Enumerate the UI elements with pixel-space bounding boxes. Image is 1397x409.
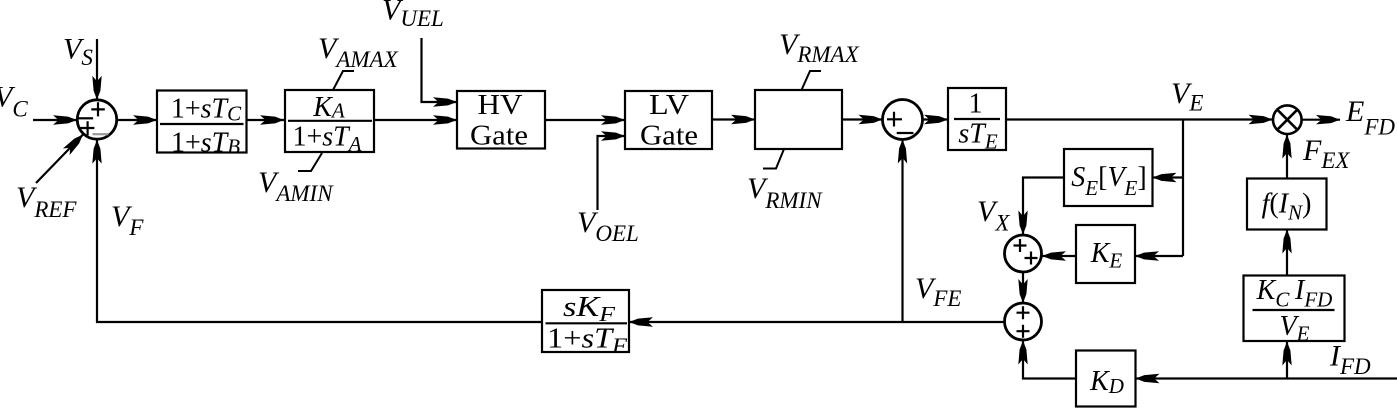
S3 plus sign (top) — [1017, 306, 1030, 319]
wire branch to KE block — [1135, 255, 1183, 257]
wire V_FE output (S3 to sKF block) — [629, 321, 1005, 323]
S3 plus sign (bottom) — [1017, 325, 1030, 338]
label V_AMIN — [258, 166, 334, 206]
label V_C — [0, 81, 28, 122]
wire f(IN) to multiplier — [1286, 135, 1288, 179]
svg-text:VOEL: VOEL — [577, 206, 639, 246]
wire HV gate to LV gate — [545, 119, 625, 121]
svg-text:EFD: EFD — [1345, 95, 1395, 140]
wire SE output to SX junction — [1023, 178, 1064, 235]
label V_F — [111, 200, 144, 240]
block G3 transfer function 1/(sTE) — [948, 88, 1006, 154]
wire V_E branch down — [1182, 120, 1184, 257]
label V_RMIN — [747, 172, 823, 213]
S1 minus sign (V_C) — [78, 117, 93, 119]
label I_FD — [1329, 340, 1371, 380]
block KE — [1076, 225, 1135, 283]
wire limiter to S2 — [842, 118, 883, 120]
block G1 transfer function (1+sTC)/(1+sTB) — [157, 91, 247, 159]
SX plus sign (right) — [1025, 252, 1038, 265]
block GF transfer function sKF/(1+sTF) — [542, 290, 629, 358]
svg-text:VAMIN: VAMIN — [258, 166, 334, 206]
block LV gate — [625, 90, 712, 152]
svg-text:KA: KA — [312, 92, 345, 123]
wire V_OEL input — [598, 136, 626, 210]
block FN rectifier f(IN) — [1247, 179, 1327, 230]
S1 minus sign (V_F) — [93, 133, 109, 135]
wire KE to SX — [1042, 255, 1076, 257]
svg-text:1+sTC: 1+sTC — [171, 94, 242, 126]
svg-text:VF: VF — [111, 200, 144, 240]
wire V_S input — [96, 39, 98, 100]
svg-text:SE[VE]: SE[VE] — [1071, 162, 1146, 200]
svg-text:VE: VE — [1280, 311, 1310, 346]
wire V_F feedback (from sKF block output up into S1) — [97, 140, 542, 322]
svg-text:KC IFD: KC IFD — [1256, 275, 1333, 312]
svg-text:1+sTA: 1+sTA — [292, 122, 361, 157]
S1 plus sign (V_S) — [91, 102, 105, 116]
svg-text:Gate: Gate — [470, 121, 528, 152]
summing junction SX — [1005, 235, 1042, 272]
label F_EX — [1302, 134, 1350, 173]
summing junction S2 — [883, 100, 923, 140]
svg-text:VUEL: VUEL — [382, 0, 444, 31]
wire KC to f(IN) block — [1286, 230, 1288, 277]
label V_RMAX — [779, 28, 860, 67]
label E_FD — [1345, 95, 1395, 140]
summing junction S1 — [77, 100, 116, 139]
svg-text:VC: VC — [0, 81, 28, 122]
svg-text:KD: KD — [1089, 366, 1124, 398]
S1 plus sign (V_REF) — [80, 121, 94, 135]
wire G1 to G2 — [246, 119, 284, 121]
block HV gate — [457, 90, 545, 152]
svg-text:FEX: FEX — [1302, 134, 1350, 173]
S2 plus sign — [887, 112, 902, 127]
limit marker V_AMAX — [333, 71, 354, 90]
wire LV gate to limiter block — [712, 118, 755, 120]
label V_E — [1171, 77, 1203, 116]
summing junction S3 — [1005, 303, 1042, 340]
wire V_FE to S2 (vertical) — [901, 140, 903, 323]
block SE saturation S_E[V_E] — [1064, 149, 1153, 206]
label V_OEL — [577, 206, 639, 246]
block KC transfer function KC*IFD/VE — [1244, 275, 1345, 346]
wire S1 to block G1 — [117, 119, 157, 121]
svg-text:f(IN): f(IN) — [1262, 189, 1312, 225]
label V_FE — [915, 272, 961, 311]
svg-text:VX: VX — [977, 195, 1010, 236]
multiplier M1 — [1273, 105, 1302, 134]
wire V_C input — [33, 119, 77, 121]
wire multiplier to E_FD — [1302, 119, 1340, 121]
svg-text:VRMIN: VRMIN — [747, 172, 823, 213]
svg-text:VFE: VFE — [915, 272, 961, 311]
svg-text:1+sTF: 1+sTF — [547, 324, 627, 358]
label V_REF — [16, 181, 77, 222]
limit marker V_AMIN — [298, 153, 322, 171]
svg-text:VAMAX: VAMAX — [318, 32, 399, 72]
svg-text:VREF: VREF — [16, 181, 77, 222]
svg-text:VS: VS — [63, 33, 93, 71]
SX plus sign (top) — [1014, 239, 1027, 252]
block limiter (empty rectangle) — [755, 90, 842, 149]
limit marker V_RMIN — [763, 149, 784, 169]
wire KD output to S3 — [1023, 341, 1076, 379]
svg-text:sTE: sTE — [958, 119, 997, 154]
wire branch to SE block — [1153, 176, 1184, 178]
label V_X — [977, 195, 1010, 236]
block KD — [1076, 351, 1136, 407]
wire S2 to G3 — [923, 118, 949, 120]
label V_AMAX — [318, 32, 399, 72]
svg-text:VRMAX: VRMAX — [779, 28, 860, 67]
svg-text:Gate: Gate — [640, 121, 698, 152]
svg-text:IFD: IFD — [1329, 340, 1371, 380]
svg-text:KE: KE — [1090, 238, 1123, 273]
limit marker V_RMAX — [802, 71, 822, 90]
block G2 transfer function KA/(1+sTA) — [285, 90, 374, 156]
svg-text:sKF: sKF — [563, 292, 615, 326]
svg-text:1: 1 — [969, 89, 983, 120]
wire I_FD input — [1136, 377, 1397, 379]
svg-text:HV: HV — [478, 90, 523, 121]
wire G2 to HV gate — [375, 119, 457, 121]
wire V_UEL input — [422, 38, 458, 102]
wire V_REF input (diagonal) — [36, 135, 83, 184]
label V_S — [63, 33, 93, 71]
svg-text:VE: VE — [1171, 77, 1203, 116]
label V_UEL — [382, 0, 444, 31]
svg-text:LV: LV — [649, 90, 689, 121]
svg-text:1+sTB: 1+sTB — [171, 128, 240, 159]
S2 minus sign — [897, 132, 914, 134]
wire I_FD branch to KC block — [1286, 342, 1288, 379]
wire G3 to multiplier — [1007, 118, 1273, 120]
wire SX to S3 — [1022, 272, 1024, 303]
